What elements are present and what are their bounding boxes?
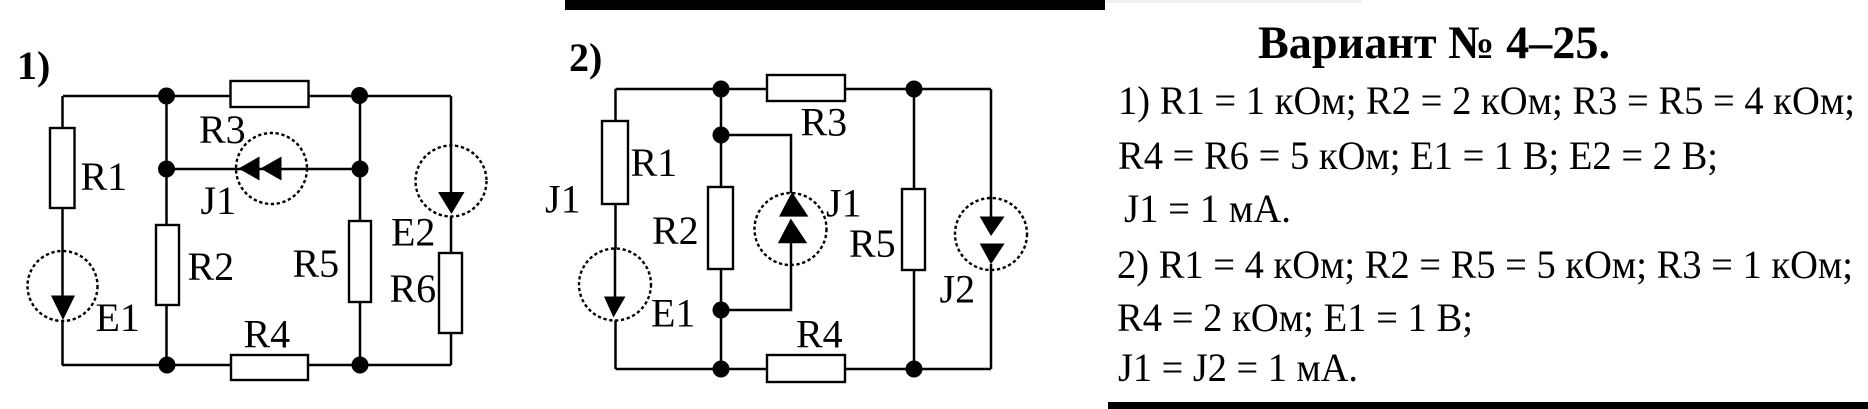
c2 E1 arrow down — [604, 297, 626, 318]
current source J2 circle — [955, 198, 1027, 270]
resistor R4 — [767, 355, 845, 382]
svg-text:R6: R6 — [390, 266, 437, 311]
wire: E1 internal line — [614, 249, 617, 298]
wire: middle row — [167, 168, 361, 171]
scan artifact top grey strip — [1105, 0, 1362, 3]
resistor R2 — [156, 225, 179, 305]
wire: bottom — [616, 368, 992, 371]
node A (c1 top branch2) — [158, 88, 175, 105]
wire: branch3 vertical — [359, 96, 362, 365]
resistor R1 — [50, 128, 75, 208]
wire: right branch vertical — [450, 96, 453, 365]
svg-text:R4: R4 — [244, 312, 291, 357]
wire: top left (R1 branch top) — [63, 95, 230, 98]
svg-text:R4: R4 — [796, 312, 843, 357]
resistor R3 — [231, 81, 309, 107]
resistor R1 — [602, 121, 628, 204]
scan artifact bottom bar — [1108, 402, 1868, 409]
resistor R2 — [708, 187, 733, 269]
node C (c1 mid branch2) — [158, 161, 175, 178]
svg-text:R2: R2 — [652, 208, 699, 253]
svg-text:2) R1 = 4 кОм; R2 = R5 = 5 кОм: 2) R1 = 4 кОм; R2 = R5 = 5 кОм; R3 = 1 к… — [1117, 242, 1853, 287]
svg-text:J2: J2 — [940, 267, 976, 312]
wire: E1 internal line — [61, 251, 64, 296]
resistor R5 — [349, 221, 371, 302]
wire: top — [616, 88, 992, 91]
wire: E2 internal line — [450, 146, 453, 192]
svg-text:R5: R5 — [849, 221, 896, 266]
wire: J1 sub-branch — [721, 135, 791, 310]
node D (c1 mid branch3) — [352, 161, 369, 178]
wire: branch2 vertical — [165, 96, 168, 365]
node H (c2 top R5) — [906, 81, 923, 98]
node B (c1 top branch3) — [351, 87, 368, 104]
node F (c1 bottom branch3) — [352, 357, 369, 374]
node I (c2 mid upper) — [713, 127, 730, 144]
svg-text:J1: J1 — [201, 178, 237, 223]
E2 arrow down — [438, 192, 465, 214]
svg-text:R4 = R6 = 5 кОм; E1 = 1 В; E2: R4 = R6 = 5 кОм; E1 = 1 В; E2 = 2 В; — [1118, 133, 1718, 178]
svg-text:1) R1 = 1 кОм; R2 = 2 кОм; R3: 1) R1 = 1 кОм; R2 = 2 кОм; R3 = R5 = 4 к… — [1118, 78, 1855, 123]
svg-text:R2: R2 — [188, 244, 235, 289]
EMF source E2 circle — [416, 146, 487, 217]
current source J1 circle — [755, 193, 827, 265]
svg-text:R1: R1 — [81, 154, 128, 199]
wire: J1 c2 internal line — [790, 243, 793, 265]
node E (c1 bottom branch2) — [159, 357, 176, 374]
EMF source E1 circle — [28, 251, 98, 321]
node L (c2 bottom R5) — [906, 361, 923, 378]
svg-text:R3: R3 — [801, 100, 848, 145]
svg-text:R3: R3 — [199, 107, 246, 152]
wire: bottom — [62, 364, 451, 367]
svg-text:J1: J1 — [826, 181, 862, 226]
node K (c2 bottom mid) — [713, 361, 730, 378]
svg-text:R4 = 2 кОм; E1 = 1 В;: R4 = 2 кОм; E1 = 1 В; — [1117, 295, 1473, 340]
wire: R5 branch vertical — [913, 89, 916, 369]
svg-text:R1: R1 — [631, 140, 678, 185]
scan artifact top bar — [565, 0, 1105, 10]
svg-text:J1 = J2 = 1 мА.: J1 = J2 = 1 мА. — [1118, 345, 1358, 390]
c2 J2 arrow down 1 — [980, 217, 1005, 237]
svg-text:E1: E1 — [96, 295, 140, 340]
svg-text:1): 1) — [17, 43, 50, 88]
J1 arrow left 2 — [261, 157, 282, 181]
wire: mid branch vertical — [720, 89, 723, 369]
svg-text:2): 2) — [569, 35, 602, 80]
svg-text:J1 = 1 мА.: J1 = 1 мА. — [1124, 186, 1291, 231]
resistor R4 — [231, 355, 308, 380]
wire: left branch vertical — [61, 96, 64, 365]
resistor R3 — [767, 75, 845, 101]
svg-text:E1: E1 — [651, 291, 695, 336]
EMF source E1 circle — [579, 249, 651, 321]
c2 J1 arrow up 1 — [779, 192, 808, 217]
J1 arrow left 1 — [239, 157, 260, 181]
svg-text:R5: R5 — [293, 241, 340, 286]
node J (c2 mid lower) — [713, 302, 730, 319]
E1 arrow down — [51, 296, 75, 321]
wire: right branch vertical — [990, 89, 993, 369]
resistor R5 — [902, 189, 925, 270]
c2 J1 arrow up 2 — [778, 219, 807, 244]
wire: top right of R3 — [309, 95, 451, 98]
node G (c2 top mid) — [713, 81, 730, 98]
c2 J2 arrow down 2 — [980, 244, 1005, 265]
wire: left branch vertical — [614, 89, 617, 369]
wire: J2 internal line — [990, 198, 993, 270]
svg-text:J1: J1 — [545, 177, 581, 222]
svg-text:E2: E2 — [391, 210, 435, 255]
current source J1 circle — [236, 133, 307, 204]
resistor R6 — [439, 253, 462, 333]
svg-text:Вариант № 4–25.: Вариант № 4–25. — [1258, 18, 1610, 69]
